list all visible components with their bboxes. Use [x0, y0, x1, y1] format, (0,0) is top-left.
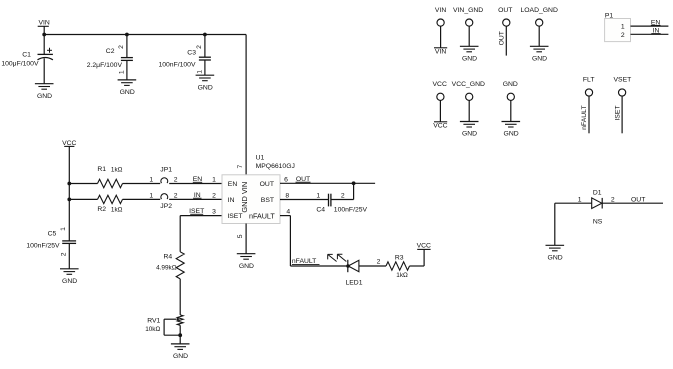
wire: TP FLT stub with rotated net label nFAULT [581, 96, 589, 133]
ground under VCC_GND [460, 122, 479, 138]
svg-text:C2: C2 [106, 48, 115, 55]
svg-text:GND: GND [173, 353, 188, 360]
svg-text:GND: GND [198, 84, 213, 91]
svg-text:VIN: VIN [435, 49, 446, 56]
ground under D1 [546, 245, 565, 261]
wire: TP OUT stub with rotated net label OUT [498, 26, 506, 55]
P1 pin 1 [621, 24, 668, 31]
op IC U1 MPQ6610GJ body [222, 175, 280, 224]
svg-text:GND: GND [532, 56, 547, 63]
wire: VIN bus horizontal [44, 34, 246, 36]
svg-text:2: 2 [174, 176, 178, 183]
svg-text:3: 3 [212, 208, 216, 215]
svg-text:FLT: FLT [583, 77, 595, 84]
svg-text:2: 2 [377, 258, 381, 265]
svg-text:VSET: VSET [614, 77, 632, 84]
svg-text:100μF/100V: 100μF/100V [1, 61, 39, 68]
svg-text:1: 1 [60, 227, 67, 231]
svg-text:100nF/25V: 100nF/25V [334, 206, 368, 213]
wire: TP VIN stub [440, 26, 442, 48]
ground under U1 [237, 254, 256, 270]
test point VCC [433, 81, 447, 100]
svg-text:R4: R4 [164, 254, 173, 261]
wire: D1 anode net [555, 202, 592, 204]
wire: D1 anode down to ground [554, 203, 556, 245]
svg-text:1: 1 [212, 176, 216, 183]
resistor R4 4.99k [156, 252, 184, 315]
test point VIN [435, 7, 446, 26]
svg-text:GND: GND [503, 81, 518, 88]
test point OUT [498, 7, 512, 26]
svg-text:2: 2 [611, 197, 615, 204]
svg-text:1kΩ: 1kΩ [111, 167, 123, 174]
svg-text:6: 6 [284, 176, 288, 183]
svg-text:BST: BST [261, 197, 274, 204]
wire: OUT net from U1 pin 6 [280, 176, 375, 183]
ground under RV1 [171, 344, 190, 360]
svg-text:R1: R1 [97, 166, 106, 173]
svg-text:10kΩ: 10kΩ [145, 326, 160, 333]
node junction OUT/BST [352, 181, 356, 185]
svg-text:5: 5 [237, 234, 244, 238]
wire: nFAULT from U1 pin 4 to LED [280, 216, 348, 266]
svg-text:OUT: OUT [260, 181, 274, 188]
svg-text:1: 1 [316, 192, 320, 199]
svg-text:2: 2 [341, 192, 345, 199]
svg-text:R3: R3 [395, 254, 404, 261]
svg-text:ISET: ISET [614, 105, 621, 120]
wire: VIN bus down to U1 pin 7 [245, 35, 247, 175]
wire: TP VSET stub with rotated net label ISET [614, 96, 622, 133]
svg-text:2: 2 [621, 32, 625, 39]
svg-text:MPQ6610GJ: MPQ6610GJ [256, 163, 295, 170]
test point FLT [583, 77, 595, 96]
svg-text:VCC: VCC [433, 81, 447, 88]
svg-text:LED1: LED1 [345, 279, 362, 286]
svg-text:GND: GND [462, 131, 477, 138]
svg-text:2.2μF/100V: 2.2μF/100V [87, 62, 123, 69]
U1 inside pin names [227, 181, 275, 220]
ground under C2 [118, 80, 137, 96]
capacitor C1 100uF/100V (polarized) [1, 35, 53, 84]
resistor R2 1k [69, 195, 160, 214]
capacitor C5 100nF/25V [26, 227, 76, 269]
diode D1 [592, 189, 603, 225]
svg-text:1: 1 [196, 70, 203, 74]
svg-text:OUT: OUT [498, 31, 505, 45]
capacitor C3 100nF/100V [158, 35, 210, 76]
svg-text:GND: GND [62, 278, 77, 285]
svg-text:2: 2 [174, 192, 178, 199]
node junction at C3 [203, 33, 207, 37]
svg-text:1: 1 [118, 70, 125, 74]
svg-text:RV1: RV1 [147, 317, 160, 324]
svg-text:nFAULT: nFAULT [249, 211, 275, 220]
svg-text:U1: U1 [256, 154, 265, 161]
wire: VCC rail down to C5 [68, 146, 70, 241]
svg-text:C3: C3 [187, 50, 196, 57]
svg-text:LOAD_GND: LOAD_GND [520, 7, 557, 14]
svg-text:GND: GND [504, 131, 519, 138]
wire: TP VCC_GND stub [468, 100, 470, 121]
power port VCC (left) [62, 140, 76, 147]
potentiometer RV1 10k (rheostat) [145, 315, 183, 344]
svg-text:IN: IN [228, 197, 235, 204]
svg-text:1: 1 [149, 176, 153, 183]
ground under C3 [196, 75, 215, 91]
svg-text:C4: C4 [316, 206, 325, 213]
wire: ISET net from U1 pin 3 down to R4 [180, 208, 222, 252]
net label nFAULT [292, 258, 320, 265]
svg-text:7: 7 [237, 165, 244, 169]
svg-text:1: 1 [578, 197, 582, 204]
ground under C1 [35, 84, 54, 100]
svg-text:D1: D1 [593, 189, 602, 196]
power port VIN (under test point) [434, 48, 447, 56]
ground under VIN_GND [460, 46, 479, 62]
svg-text:VIN: VIN [39, 20, 50, 27]
svg-text:1kΩ: 1kΩ [111, 207, 123, 214]
svg-text:OUT: OUT [631, 197, 645, 204]
wire: U1 GND pin 5 stub [245, 224, 247, 254]
svg-text:GND: GND [239, 263, 254, 270]
wire: OUT net from D1 with label [602, 197, 663, 204]
svg-text:GND VIN: GND VIN [240, 182, 249, 213]
LED LED1 [328, 254, 386, 286]
svg-text:VIN: VIN [435, 7, 446, 14]
svg-text:4.99kΩ: 4.99kΩ [156, 265, 177, 272]
ground under TP GND [502, 122, 521, 138]
svg-text:VCC: VCC [433, 123, 447, 130]
wire: JP2 to U1 IN, net label IN [169, 192, 222, 200]
net label EN (P1) [651, 20, 661, 27]
svg-text:OUT: OUT [498, 7, 512, 14]
jumper JP2 [149, 192, 177, 210]
node junction R1 tap [67, 182, 71, 186]
ground under LOAD_GND [530, 46, 549, 62]
svg-text:P1: P1 [605, 12, 614, 19]
power port VCC (at R3) [417, 243, 431, 250]
test point VIN_GND [453, 7, 483, 26]
ground under C5 [60, 269, 79, 285]
capacitor C4 100nF/25V [316, 183, 367, 213]
wire: JP1 to U1 EN, net label EN [169, 176, 222, 184]
svg-text:2: 2 [212, 192, 216, 199]
test point VSET [614, 77, 632, 96]
svg-text:GND: GND [120, 89, 135, 96]
resistor R3 1k [386, 249, 424, 279]
wire: TP VCC stub [439, 100, 441, 121]
jumper JP1 [149, 167, 177, 184]
svg-text:4: 4 [286, 208, 290, 215]
net label IN (P1) [651, 28, 660, 35]
svg-text:VCC: VCC [62, 140, 76, 147]
power port VIN (top-left) [38, 20, 50, 35]
test point GND [503, 81, 518, 100]
svg-text:100nF/100V: 100nF/100V [158, 62, 196, 69]
svg-text:JP1: JP1 [160, 167, 172, 174]
svg-text:1kΩ: 1kΩ [396, 272, 408, 279]
node junction at C2 [125, 33, 129, 37]
svg-text:100nF/25V: 100nF/25V [26, 243, 60, 250]
svg-text:1: 1 [149, 192, 153, 199]
wire: TP LOAD_GND stub [538, 26, 540, 46]
resistor R1 1k [69, 166, 160, 188]
svg-text:VIN_GND: VIN_GND [453, 7, 483, 14]
capacitor C2 2.2uF/100V [87, 35, 133, 80]
node junction at C1 [42, 33, 46, 37]
test point VCC_GND [452, 81, 485, 100]
node junction R2 tap [67, 198, 71, 202]
svg-text:C5: C5 [48, 231, 57, 238]
connector P1 body [605, 19, 631, 42]
svg-text:ISET: ISET [227, 213, 242, 220]
svg-text:2: 2 [118, 45, 125, 49]
svg-text:GND: GND [548, 255, 563, 262]
svg-text:GND: GND [37, 93, 52, 100]
wire: TP GND stub [510, 100, 512, 121]
test point LOAD_GND [520, 7, 557, 26]
svg-text:JP2: JP2 [160, 203, 172, 210]
svg-text:1: 1 [621, 24, 625, 31]
svg-text:8: 8 [285, 192, 289, 199]
power port VCC (under test point) [433, 122, 447, 130]
svg-text:2: 2 [60, 252, 67, 256]
svg-text:C1: C1 [22, 52, 31, 59]
svg-text:R2: R2 [97, 206, 106, 213]
svg-text:nFAULT: nFAULT [581, 105, 588, 129]
svg-text:NS: NS [593, 218, 603, 225]
svg-text:VCC: VCC [417, 243, 431, 250]
wire: BST to C4 [280, 199, 329, 201]
P1 pin 2 [621, 32, 668, 39]
svg-text:2: 2 [196, 45, 203, 49]
svg-text:GND: GND [462, 56, 477, 63]
node junction RV1 wiper [178, 333, 182, 337]
svg-text:VCC_GND: VCC_GND [452, 81, 485, 88]
wire: TP VIN_GND stub [468, 26, 470, 46]
svg-text:EN: EN [228, 181, 238, 188]
